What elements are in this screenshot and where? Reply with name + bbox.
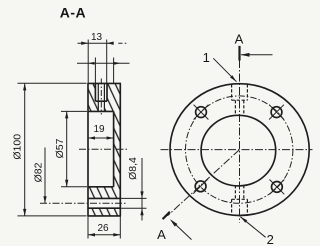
hatch bottom band upper part: [88, 187, 120, 199]
dim 13 ext lines: [87, 40, 89, 84]
hatch recess bottom wall: [114, 111, 121, 186]
right face V2: [119, 83, 121, 216]
dim 19 line: [88, 137, 114, 139]
hole 2 axis / Ø82 extension: [40, 202, 128, 204]
svg-text:A: A: [157, 227, 166, 242]
leader 2: [240, 217, 265, 238]
svg-text:Ø82: Ø82: [33, 162, 45, 182]
outer circle: [170, 84, 309, 216]
svg-text:A: A: [235, 31, 244, 46]
svg-text:Ø57: Ø57: [54, 138, 66, 158]
svg-text:Ø100: Ø100: [11, 134, 23, 160]
left view outline: top edge: [87, 82, 121, 84]
hole 2 bottom edge: [88, 207, 120, 209]
dim Ø8,4 lines: [141, 158, 143, 221]
dim Ø82 line: [44, 148, 46, 204]
dim row2 arrows: [88, 62, 94, 65]
part axis centerline: [79, 148, 128, 150]
section arrow top: [241, 54, 273, 56]
hatch bottom band lower part: [88, 208, 120, 216]
dim 13 line: [78, 42, 114, 44]
leader 1: [213, 58, 236, 81]
bottom edge: [87, 215, 121, 217]
hole 1 wide wall left: [94, 83, 96, 101]
svg-text:2: 2: [267, 232, 274, 246]
svg-text:A-A: A-A: [60, 5, 86, 21]
left face V1: [87, 83, 89, 216]
hole 1 inner line right: [103, 83, 105, 111]
bore top line: [88, 110, 114, 112]
hole 1 hidden lines (top radial hole): [231, 84, 233, 100]
dim Ø100 ext lines: [18, 82, 87, 84]
dim row2 ext lines: [94, 58, 96, 84]
svg-text:Ø8,4: Ø8,4: [127, 157, 139, 180]
bore circle: [201, 115, 276, 186]
bolt circle: [186, 96, 293, 203]
dim 26 ext lines: [87, 216, 89, 239]
section arrow bottom: [172, 221, 192, 240]
hole 1 step line: [95, 100, 107, 102]
dim 26 line: [88, 234, 120, 236]
section trace top thick bar: [238, 46, 240, 61]
svg-text:26: 26: [97, 223, 109, 234]
bolt hole top-right: [271, 107, 282, 118]
bore bottom line: [88, 186, 114, 188]
hole 1 centerline: [100, 79, 102, 115]
dim Ø57 ext lines: [61, 110, 87, 112]
hole 2 hidden lines (bottom radial hole): [231, 199, 233, 215]
vertical section trace: [239, 60, 241, 223]
recess wall edge: [113, 111, 115, 186]
dim Ø8,4 ext lines: [120, 197, 146, 199]
dim 13 arrows: [81, 42, 88, 45]
dim 19 arrows: [88, 136, 95, 139]
bolt hole bottom-right: [272, 182, 283, 193]
horizontal centerline: [161, 149, 313, 151]
dim 26 arrows: [88, 233, 95, 236]
hatch top band of section: [88, 83, 120, 111]
hole 1 inner line left: [97, 83, 99, 111]
hole 2 top edge: [88, 197, 120, 199]
hole 1 wide wall right: [106, 83, 108, 101]
bolt hole bottom-left: [195, 181, 206, 192]
bolt hole top-left: [196, 107, 207, 118]
dim row2 line: [77, 62, 130, 64]
diagonal section trace: [168, 150, 240, 216]
dim Ø57 line: [66, 111, 68, 186]
svg-text:1: 1: [203, 50, 210, 65]
section trace bottom thick bar: [163, 212, 170, 219]
svg-text:13: 13: [91, 32, 103, 43]
dim Ø100 line: [24, 83, 26, 216]
svg-text:19: 19: [93, 124, 105, 135]
